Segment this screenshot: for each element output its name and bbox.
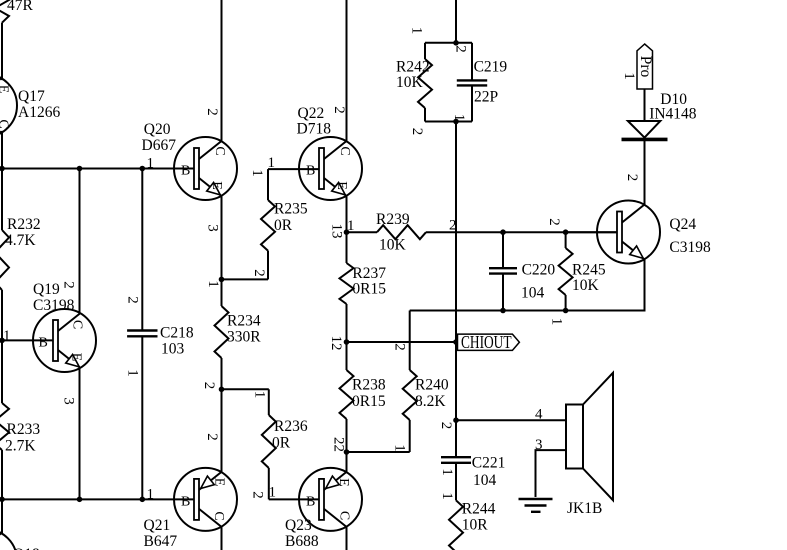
- svg-text:8.2K: 8.2K: [415, 393, 446, 410]
- Q20 emitter wire: [221, 196, 223, 280]
- svg-text:D667: D667: [142, 137, 177, 154]
- capacitor C220: [489, 232, 517, 310]
- transistor Q18 (partial): [0, 529, 17, 550]
- svg-text:1: 1: [3, 328, 11, 344]
- junction R238 bottom node: [344, 449, 350, 455]
- svg-text:CHIOUT: CHIOUT: [461, 332, 512, 352]
- svg-text:C: C: [337, 511, 352, 520]
- svg-text:C220: C220: [522, 262, 556, 279]
- diode D10: [622, 89, 668, 205]
- Q24 emitter wire: [644, 259, 646, 310]
- wire node to R240 bottom: [347, 451, 410, 453]
- resistor R242: [418, 43, 432, 122]
- svg-text:E: E: [212, 478, 227, 487]
- resistor R244: [449, 500, 463, 550]
- capacitor C219: [457, 43, 487, 122]
- transistor Q17: [0, 74, 17, 137]
- svg-text:B: B: [306, 164, 315, 179]
- svg-text:A1266: A1266: [18, 104, 60, 121]
- svg-text:B: B: [181, 495, 190, 510]
- svg-text:B647: B647: [144, 533, 178, 550]
- svg-text:1: 1: [549, 318, 565, 326]
- svg-text:104: 104: [473, 472, 497, 489]
- svg-text:2: 2: [331, 106, 347, 114]
- svg-text:C: C: [212, 146, 227, 155]
- svg-text:13: 13: [328, 224, 344, 239]
- svg-text:R240: R240: [415, 377, 449, 394]
- wire left rail: [0, 168, 194, 170]
- svg-text:2: 2: [409, 128, 425, 136]
- svg-text:1: 1: [409, 27, 425, 35]
- wire main vertical middle: [455, 122, 457, 343]
- wire R235 to Q22 base: [268, 168, 319, 170]
- svg-text:1: 1: [147, 487, 155, 503]
- resistor R236: [262, 389, 276, 499]
- svg-text:B: B: [39, 336, 48, 351]
- svg-text:R234: R234: [227, 313, 261, 330]
- resistor R239: [347, 225, 618, 239]
- svg-text:Pro: Pro: [637, 56, 654, 78]
- Q23 collector wire: [346, 527, 348, 550]
- net flag CHIOUT: [458, 332, 520, 352]
- junction left rail / Q19 collector: [77, 166, 83, 172]
- resistor R233: [0, 340, 9, 499]
- svg-text:0R: 0R: [272, 435, 291, 452]
- svg-text:C218: C218: [160, 325, 194, 342]
- transistor Q22: [299, 137, 362, 200]
- transistor Q19: [33, 309, 96, 372]
- svg-text:R235: R235: [274, 201, 308, 218]
- Q23 emitter wire: [346, 452, 348, 472]
- svg-text:R242: R242: [396, 59, 430, 76]
- junction C220 top: [500, 229, 506, 235]
- svg-text:R239: R239: [376, 211, 410, 228]
- svg-text:10R: 10R: [462, 517, 489, 534]
- svg-text:Q23: Q23: [285, 517, 312, 534]
- wire R242-C219 top rail: [425, 42, 472, 44]
- svg-text:E: E: [336, 478, 351, 487]
- junction C220 bottom: [500, 308, 506, 314]
- svg-text:E: E: [0, 85, 11, 94]
- svg-text:R244: R244: [462, 501, 496, 518]
- svg-text:2: 2: [201, 382, 217, 390]
- svg-text:1: 1: [439, 492, 455, 500]
- Q22 emitter wire: [346, 196, 348, 232]
- svg-text:330R: 330R: [227, 329, 261, 346]
- Q20 collector wire: [221, 0, 223, 141]
- svg-text:2: 2: [438, 422, 454, 430]
- svg-text:104: 104: [521, 285, 545, 302]
- junction bottom rail / C218: [140, 497, 146, 503]
- junction R245 bottom: [563, 308, 569, 314]
- svg-text:3: 3: [61, 397, 77, 405]
- resistor R240: [403, 311, 417, 453]
- svg-text:2: 2: [204, 433, 220, 441]
- svg-text:103: 103: [161, 341, 185, 358]
- junction bottom rail / left line: [0, 497, 5, 503]
- svg-text:JK1B: JK1B: [567, 500, 602, 517]
- wire Q17 collector to left rail: [1, 131, 3, 169]
- Q21 collector wire: [221, 527, 223, 550]
- wire R236 to Q23 base: [269, 498, 319, 500]
- svg-text:Q21: Q21: [144, 517, 171, 534]
- wire to JK1B pin 4: [456, 419, 566, 421]
- wire main vertical lower: [455, 342, 457, 420]
- svg-text:12: 12: [328, 336, 344, 351]
- svg-text:1: 1: [205, 280, 221, 288]
- wire node to R236: [222, 388, 269, 390]
- svg-text:2.7K: 2.7K: [5, 438, 36, 455]
- wire JK1B pin 3: [536, 450, 567, 497]
- Q24 base wire: [566, 231, 617, 233]
- svg-text:IN4148: IN4148: [649, 106, 697, 123]
- svg-text:1: 1: [249, 169, 265, 177]
- svg-text:1: 1: [268, 155, 276, 171]
- wire node to R235: [222, 278, 269, 280]
- junction R242/C219 bottom: [453, 119, 459, 125]
- junction bottom rail / Q19 emitter: [77, 497, 83, 503]
- wire lower rail: [410, 310, 646, 312]
- svg-text:10K: 10K: [572, 277, 600, 294]
- wire Q19 base: [2, 339, 53, 341]
- junction R234 bottom node: [219, 387, 225, 393]
- svg-text:1: 1: [392, 444, 408, 452]
- svg-text:3: 3: [205, 224, 221, 232]
- svg-text:2: 2: [453, 45, 469, 53]
- svg-text:E: E: [334, 181, 349, 190]
- svg-text:R237: R237: [352, 265, 386, 282]
- Q19 collector wire: [79, 169, 81, 314]
- speaker jack JK1B: [566, 373, 613, 500]
- capacitor C221: [441, 420, 471, 500]
- transistor Q21: [174, 468, 237, 531]
- wire main vertical top: [455, 0, 457, 43]
- transistor Q20: [174, 137, 237, 200]
- svg-text:C: C: [337, 146, 352, 155]
- svg-text:B688: B688: [285, 533, 319, 550]
- svg-text:E: E: [69, 353, 84, 362]
- transistor Q24: [597, 201, 660, 264]
- svg-text:4: 4: [535, 407, 543, 423]
- svg-text:3: 3: [535, 437, 543, 453]
- svg-text:1: 1: [269, 485, 277, 501]
- svg-text:C: C: [0, 119, 11, 128]
- svg-text:Q24: Q24: [669, 216, 696, 233]
- resistor R238: [340, 342, 354, 452]
- junction R234 top node: [219, 277, 225, 283]
- svg-text:0R15: 0R15: [352, 281, 386, 298]
- svg-text:E: E: [209, 181, 224, 190]
- resistor R235: [261, 169, 275, 279]
- svg-text:2: 2: [546, 218, 562, 226]
- svg-text:0R15: 0R15: [352, 393, 386, 410]
- capacitor C218: [127, 169, 157, 500]
- svg-text:22P: 22P: [474, 89, 498, 106]
- svg-text:2: 2: [392, 343, 408, 351]
- svg-text:R238: R238: [352, 377, 386, 394]
- svg-text:Q17: Q17: [18, 88, 45, 105]
- Q21 emitter wire: [221, 389, 223, 472]
- svg-text:22: 22: [331, 437, 347, 452]
- resistor R232: [0, 169, 9, 341]
- junction left rail / Q17: [0, 166, 5, 172]
- svg-text:10K: 10K: [379, 237, 407, 254]
- svg-text:2: 2: [204, 108, 220, 116]
- ground: [519, 499, 553, 512]
- svg-text:2: 2: [125, 296, 141, 304]
- svg-text:1: 1: [439, 468, 455, 476]
- svg-text:Q20: Q20: [144, 121, 171, 138]
- junction CHIOUT left node: [344, 339, 350, 345]
- wire CHIOUT: [347, 341, 457, 343]
- svg-text:4.7K: 4.7K: [5, 232, 36, 249]
- svg-text:1: 1: [451, 114, 467, 122]
- svg-text:Q19: Q19: [33, 281, 60, 298]
- svg-text:1: 1: [621, 72, 637, 80]
- resistor R237: [340, 232, 354, 342]
- transistor Q23: [299, 468, 362, 531]
- svg-text:Q18: Q18: [13, 546, 40, 550]
- svg-text:C3198: C3198: [669, 239, 711, 256]
- svg-text:2: 2: [250, 491, 266, 499]
- svg-text:47R: 47R: [7, 0, 34, 14]
- svg-text:10K: 10K: [396, 74, 424, 91]
- svg-text:Q22: Q22: [298, 105, 325, 122]
- resistor 47R (partial, top-left): [0, 0, 34, 80]
- svg-text:2: 2: [61, 281, 77, 289]
- junction CHIOUT node: [453, 339, 459, 345]
- Q19 emitter wire: [79, 367, 81, 499]
- svg-text:C219: C219: [474, 59, 508, 76]
- svg-text:B: B: [306, 495, 315, 510]
- junction left rail / C218: [140, 166, 146, 172]
- wire R242-C219 bottom rail: [425, 121, 472, 123]
- junction R245 top: [563, 229, 569, 235]
- wire bottom-left rail: [2, 498, 194, 500]
- svg-text:B: B: [181, 164, 190, 179]
- svg-text:R232: R232: [7, 216, 41, 233]
- svg-text:R236: R236: [274, 418, 308, 435]
- svg-text:D718: D718: [297, 121, 332, 138]
- svg-text:R233: R233: [7, 421, 41, 438]
- svg-text:2: 2: [251, 269, 267, 277]
- svg-text:2: 2: [624, 174, 640, 182]
- svg-text:C: C: [211, 511, 226, 520]
- Q22 collector wire: [346, 0, 348, 141]
- power flag Pro: [637, 44, 654, 89]
- svg-text:0R: 0R: [274, 217, 293, 234]
- svg-text:C3198: C3198: [33, 297, 75, 314]
- junction R242/C219 top: [453, 40, 459, 46]
- svg-text:C: C: [70, 320, 85, 329]
- svg-text:C221: C221: [472, 455, 506, 472]
- junction Q19 base node: [0, 338, 5, 344]
- resistor R234: [215, 279, 229, 389]
- Q24 collector wire: [644, 141, 646, 205]
- svg-text:1: 1: [125, 369, 141, 377]
- svg-text:1: 1: [147, 156, 155, 172]
- svg-text:R245: R245: [572, 262, 606, 279]
- resistor R245: [559, 232, 573, 310]
- junction Q22 emitter node: [344, 229, 350, 235]
- wire to Q18: [1, 499, 3, 533]
- junction C221 node: [453, 417, 459, 423]
- svg-text:1: 1: [252, 391, 268, 399]
